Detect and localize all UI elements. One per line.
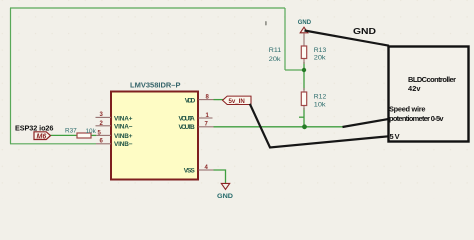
wire top segment <box>10 7 285 9</box>
pin 1 stub <box>199 117 213 119</box>
svg-text:VINB−: VINB− <box>114 141 133 148</box>
svg-text:5v_IN: 5v_IN <box>229 98 245 105</box>
svg-text:Speed wire: Speed wire <box>389 104 426 113</box>
svg-text:5V: 5V <box>390 132 400 141</box>
hierarchical label 5v_IN <box>223 96 252 105</box>
wire VOUTB long horizontal <box>214 126 344 128</box>
wire between R13 and R12 <box>303 62 305 90</box>
annotation black line GND to controller <box>305 31 390 46</box>
pin 5 stub <box>96 134 111 136</box>
annotation black line speed wire <box>343 119 389 127</box>
svg-text:R13: R13 <box>314 47 327 54</box>
junction at R13 bottom <box>302 68 306 72</box>
svg-text:GND: GND <box>298 19 312 26</box>
svg-text:R11: R11 <box>269 47 282 54</box>
junction at R12 bottom on VOUTB net <box>302 124 307 129</box>
wire VDD to 5v_IN label <box>214 99 224 101</box>
pin 8 stub <box>199 99 214 101</box>
svg-text:42v: 42v <box>408 84 421 93</box>
annotation black line 5V <box>250 104 389 148</box>
wire bottom-left to pin 6 <box>10 143 96 145</box>
svg-text:R12: R12 <box>314 93 327 100</box>
op-amp U1 LMV358IDR-P body <box>111 92 198 180</box>
pin 7 stub <box>199 126 214 128</box>
op-amp left pins stubs <box>96 100 214 170</box>
resistor R37 <box>65 127 97 138</box>
wire below R12 to output net <box>303 108 305 127</box>
pin names <box>114 97 196 174</box>
wire M6 to R37 <box>50 134 77 136</box>
dust speck artifact <box>265 21 267 26</box>
svg-text:20k: 20k <box>269 56 281 63</box>
wire stub tick left of R12 bottom <box>299 116 304 118</box>
wire right vertical x=285 <box>284 8 286 70</box>
svg-text:GND: GND <box>353 26 376 36</box>
BLDC controller labels <box>389 75 456 141</box>
svg-text:VSS: VSS <box>184 167 196 174</box>
svg-text:M6: M6 <box>37 134 47 141</box>
wire R37 to pin 5 <box>91 134 96 136</box>
svg-text:ESP32 io26: ESP32 io26 <box>15 123 53 132</box>
svg-text:VINB+: VINB+ <box>114 133 133 140</box>
svg-text:GND: GND <box>217 193 233 199</box>
svg-text:VDD: VDD <box>185 97 196 104</box>
pin 6 stub <box>96 143 111 145</box>
power symbol GND (top, rotated) <box>298 19 312 33</box>
resistor R12 <box>301 88 326 110</box>
svg-text:VOUTA: VOUTA <box>179 115 196 122</box>
svg-text:10k: 10k <box>314 101 326 108</box>
svg-text:VINA+: VINA+ <box>114 115 133 122</box>
svg-text:potentiometer 0-5v: potentiometer 0-5v <box>389 114 444 123</box>
resistor R11 labels (overlapping symbol) <box>269 47 282 63</box>
wire left segment <box>10 8 12 144</box>
svg-text:VINA−: VINA− <box>114 124 133 131</box>
wire horizontal to resistor column <box>285 69 304 71</box>
pin numbers <box>98 94 210 170</box>
pin 4 stub <box>199 169 214 171</box>
svg-text:VOUTB: VOUTB <box>179 124 196 131</box>
wire VSS to GND <box>214 170 226 183</box>
svg-text:LMV358IDR–P: LMV358IDR–P <box>130 81 181 90</box>
svg-text:BLDCcontroller: BLDCcontroller <box>408 75 456 84</box>
svg-text:10k: 10k <box>86 128 97 135</box>
resistor R13 (stacked with R11) <box>301 34 326 65</box>
power symbol GND (bottom at VSS) <box>217 183 233 200</box>
pin 2 stub <box>96 125 112 127</box>
svg-text:20k: 20k <box>314 55 326 62</box>
svg-text:R37: R37 <box>65 127 77 134</box>
BLDC controller box <box>389 47 469 142</box>
hierarchical label M6 <box>34 132 51 141</box>
pin 3 stub <box>96 116 112 118</box>
wire: net loop from ESP32 label to divider <box>10 8 304 144</box>
